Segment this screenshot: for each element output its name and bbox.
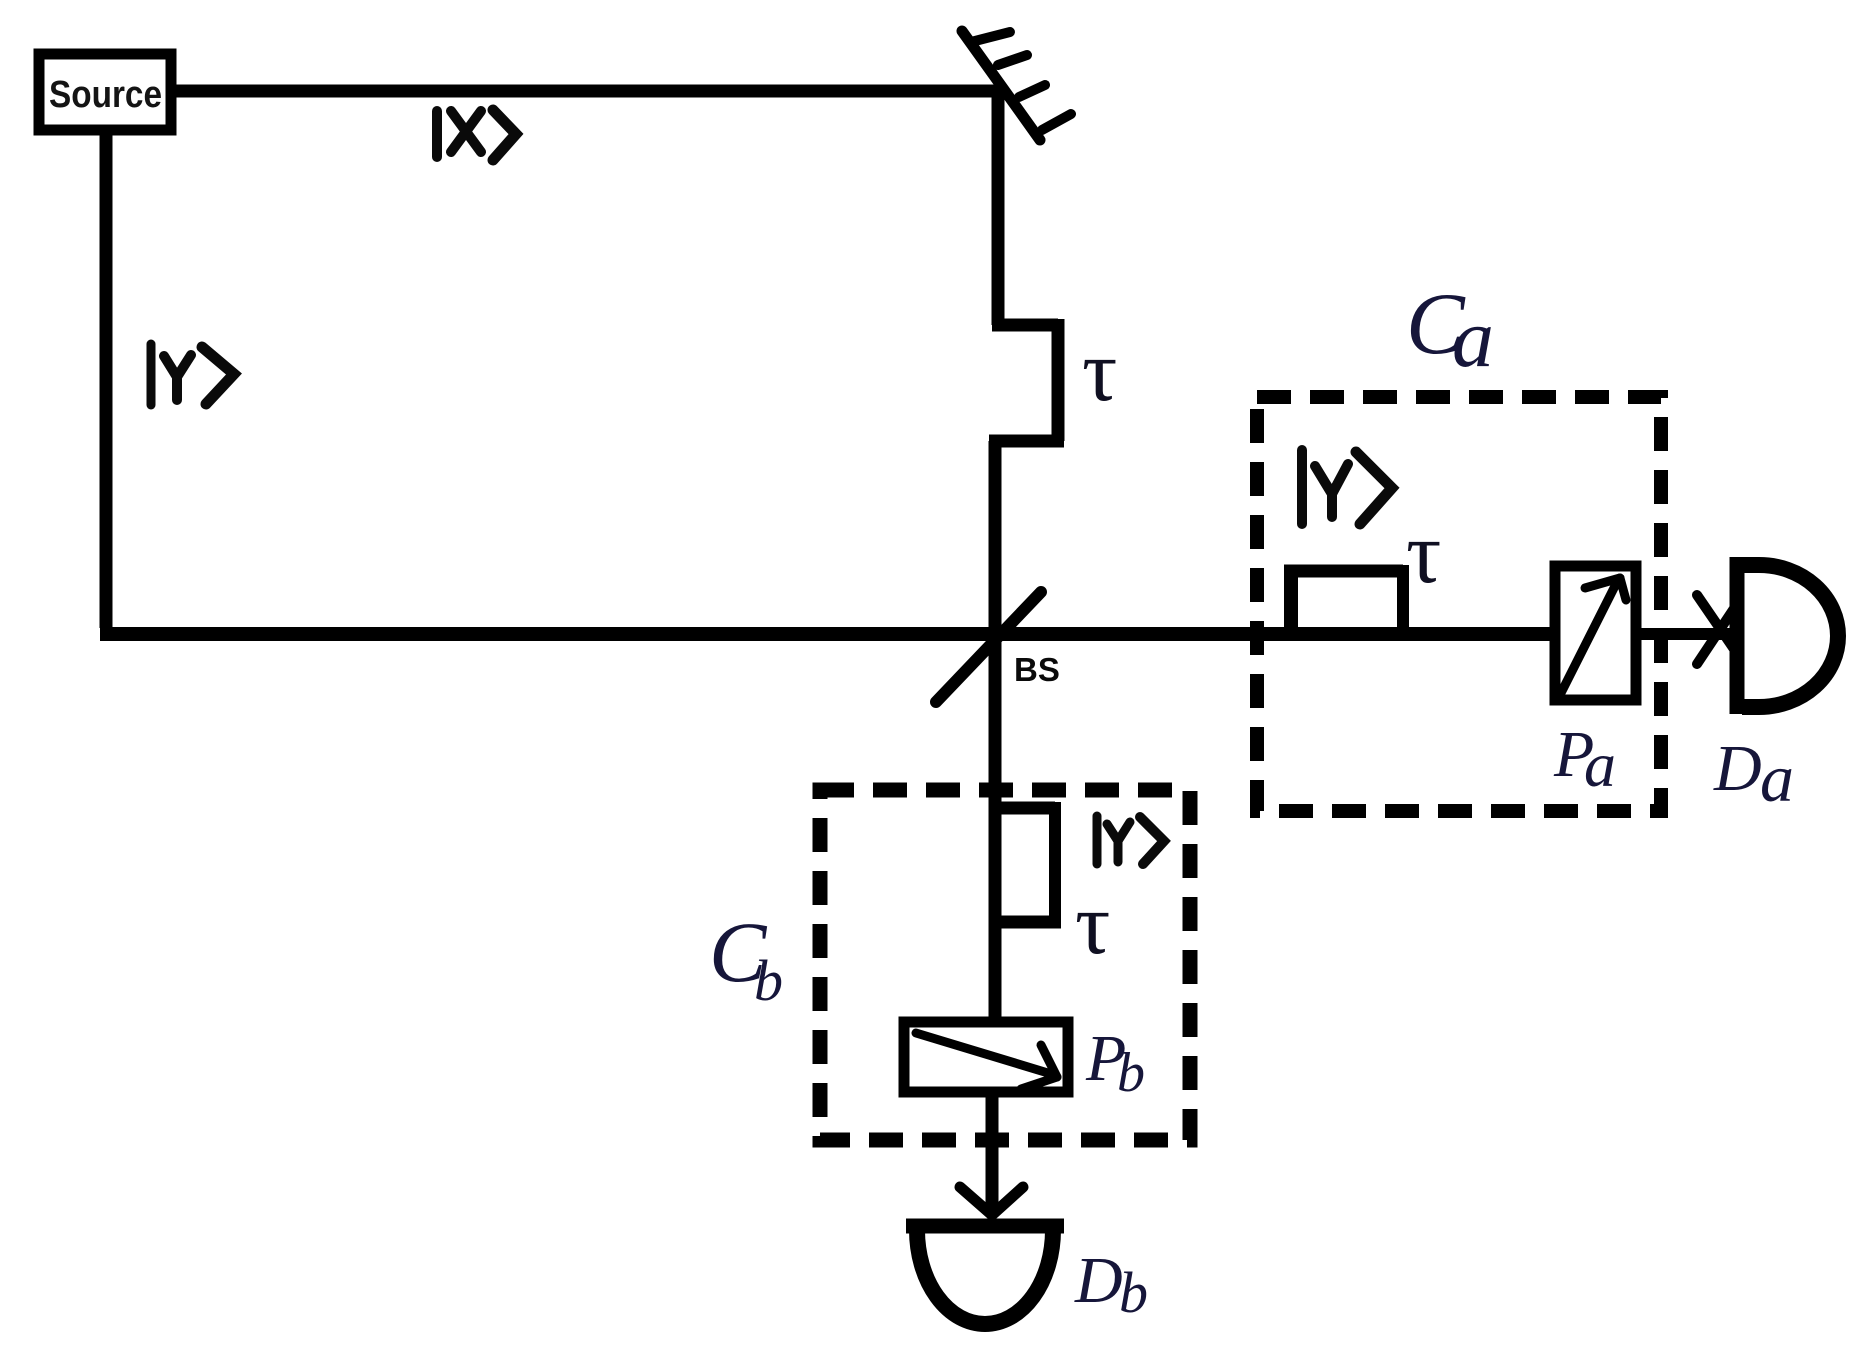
wire (Pb down to detector Db) (986, 1092, 999, 1212)
svg-text:D: D (1074, 1244, 1123, 1317)
beam splitter BS (936, 592, 1041, 702)
svg-text:a: a (1584, 729, 1616, 800)
label Pa (1553, 718, 1616, 800)
svg-text:b: b (1119, 1260, 1148, 1325)
delay tau jog (upper arm) (989, 319, 1064, 441)
svg-text:τ: τ (1075, 876, 1110, 973)
svg-text:BS: BS (1014, 651, 1060, 688)
svg-text:Source: Source (49, 74, 162, 116)
label BS (1014, 651, 1060, 688)
wire (delay jog down through BS into Cb) (989, 441, 1002, 1022)
polarizer Pb (904, 1022, 1068, 1092)
wire (mirror down to delay jog) (992, 86, 1005, 325)
label Db (1074, 1244, 1148, 1325)
label tau in Cb (1075, 876, 1110, 973)
label tau (upper arm) (1082, 323, 1117, 420)
delay tau bump in Cb (992, 802, 1061, 922)
detector Db (906, 1226, 1064, 1324)
source box (39, 54, 171, 130)
svg-text:b: b (754, 948, 783, 1013)
label Pb (1085, 1022, 1145, 1104)
dashed box Ca (1257, 397, 1661, 811)
svg-text:a: a (1760, 740, 1794, 816)
arrow into Da (1697, 595, 1735, 664)
delay tau bump in Ca (1284, 565, 1403, 634)
polarizer Pa (1555, 566, 1636, 700)
svg-text:τ: τ (1082, 323, 1117, 420)
label |X> (437, 110, 516, 160)
label Cb (709, 904, 783, 1013)
svg-text:a: a (1452, 292, 1494, 385)
label |Y> in Ca (1302, 450, 1392, 524)
arrow into Db (960, 1187, 1023, 1215)
dashed box Cb (820, 790, 1190, 1140)
label |Y> in Cb (1097, 816, 1164, 864)
label Da (1713, 732, 1794, 816)
wire (Pa to detector Da) (1636, 628, 1737, 640)
label tau in Ca (1406, 505, 1441, 602)
svg-text:b: b (1117, 1042, 1145, 1104)
label |Y> (151, 344, 234, 405)
svg-text:D: D (1713, 732, 1762, 805)
detector Da (1737, 557, 1838, 714)
svg-text:τ: τ (1406, 505, 1441, 602)
mirror (962, 31, 1071, 140)
wire X (source to mirror) (171, 85, 1006, 98)
label Ca (1406, 276, 1494, 385)
wire Y (source down then right to BS and Pa) (100, 130, 1555, 634)
